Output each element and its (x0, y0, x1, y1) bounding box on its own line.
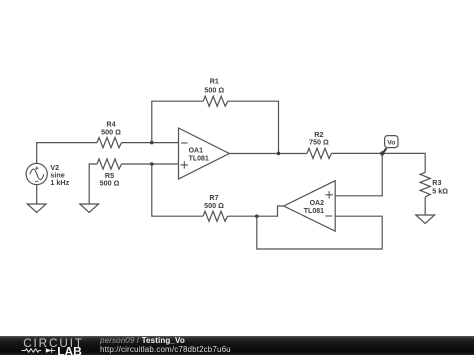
label R3 value "R3 5 k&#937;" (432, 178, 448, 195)
svg-text:TL081: TL081 (189, 155, 209, 162)
voltage source V2 (26, 163, 47, 184)
node junction OA2 output / R7 (255, 214, 259, 218)
wire R7 right to OA2 output node (228, 215, 257, 217)
wire Vo node down to OA2 plus input (335, 153, 382, 195)
node junction R4/R1 at minus input (150, 141, 154, 145)
ground GND3 under R3 (416, 215, 435, 223)
label V2 value "V2 sine 1 kHz" (50, 163, 69, 187)
CircuitLab logo resistor-diode-LAB (20, 344, 105, 355)
wire V2 bottom to ground (36, 185, 38, 204)
svg-text:5 kΩ: 5 kΩ (432, 186, 448, 195)
ground GND1 under V2 (27, 204, 46, 213)
svg-text:750 Ω: 750 Ω (309, 138, 329, 147)
wire R5 right to OA1 plus input (122, 163, 179, 165)
svg-text:OA2: OA2 (310, 200, 325, 207)
resistor R4 (97, 138, 122, 148)
svg-text:500 Ω: 500 Ω (100, 179, 120, 188)
op-amp OA1 (179, 128, 230, 179)
wire plus node down to R7 (152, 164, 203, 216)
label R7 value "R7 500 &#937;" (204, 193, 224, 210)
node Vo junction (380, 151, 384, 155)
wire R1 feedback loop left vertical (152, 101, 203, 142)
label R4 value "R4 500 &#937;" (101, 120, 121, 137)
label R1 value "R1 500 &#937;" (204, 77, 224, 95)
label R2 value "R2 750 &#937;" (309, 130, 329, 147)
svg-text:1 kHz: 1 kHz (50, 178, 69, 187)
CircuitLab logo CIRCUIT (23, 337, 84, 350)
footer url (100, 345, 231, 354)
wire OA2 feedback loop (257, 216, 382, 249)
wire R4 right to OA1 minus input (122, 142, 179, 144)
node flag Vo (382, 136, 398, 154)
wire OA2 output step to node (257, 206, 284, 216)
svg-text:TL081: TL081 (304, 208, 324, 215)
label R5 value "R5 500 &#937;" (100, 171, 120, 188)
footer bar (0, 336, 474, 355)
wire R2 right to Vo node and R3 (332, 153, 426, 172)
svg-text:500 Ω: 500 Ω (101, 128, 121, 137)
wire R3 bottom to ground (424, 197, 426, 215)
node junction R5/R7 at plus input (150, 162, 154, 166)
footer text person09 / Testing_Vo (100, 336, 185, 345)
wire R1 right to output vertical (228, 101, 279, 153)
label OA2 "OA2 TL081" (304, 200, 324, 215)
svg-text:500 Ω: 500 Ω (204, 86, 224, 95)
ground GND2 under R5 (80, 204, 99, 213)
resistor R1 (203, 96, 228, 106)
svg-text:Vo: Vo (387, 140, 395, 147)
node junction OA1 output / R1 feedback (277, 152, 281, 156)
svg-text:500 Ω: 500 Ω (204, 201, 224, 210)
op-amp OA2 (284, 181, 336, 232)
label OA1 "OA1 TL081" (189, 147, 209, 162)
svg-text:LAB: LAB (57, 345, 82, 355)
svg-text:R1: R1 (210, 77, 219, 86)
resistor R3 (420, 172, 430, 197)
resistor R2 (307, 148, 332, 158)
wire R5 ground branch (89, 164, 97, 204)
resistor R5 (97, 159, 122, 169)
svg-text:OA1: OA1 (189, 147, 204, 154)
wire OA1 output to R2 (229, 153, 307, 155)
resistor R7 (203, 211, 228, 221)
wire V2 top to R4 left (37, 143, 97, 164)
